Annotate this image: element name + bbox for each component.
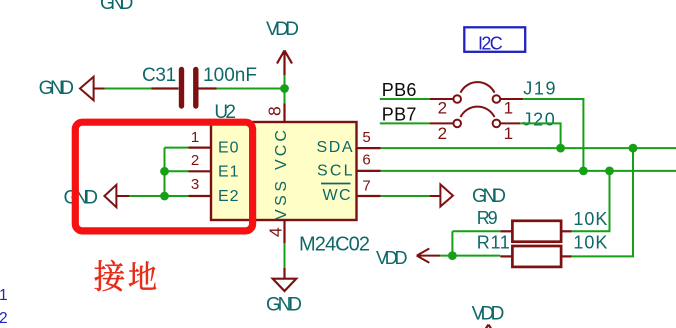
svg-text:2: 2 — [438, 124, 447, 143]
power symbol GND arrow (left of E2 row) — [104, 185, 129, 207]
wire J19 to SCL — [523, 99, 583, 171]
power symbol GND arrow (right, pin7) — [430, 184, 453, 206]
svg-text:C31: C31 — [142, 65, 176, 86]
junction at E1 — [160, 167, 169, 176]
pin 7 stub — [357, 195, 381, 197]
svg-text:1: 1 — [504, 124, 513, 143]
wire SDA line — [381, 147, 676, 149]
junction at E2 — [160, 192, 169, 201]
label box I2C — [464, 27, 525, 53]
svg-text:J20: J20 — [523, 109, 555, 129]
wire VDD to R11 left — [440, 255, 500, 257]
svg-text:PB6: PB6 — [382, 80, 417, 100]
svg-text:3: 3 — [191, 176, 199, 193]
svg-text:WC: WC — [323, 187, 351, 204]
pin 1 stub — [189, 147, 212, 149]
svg-text:VSS: VSS — [273, 181, 290, 220]
svg-text:E0: E0 — [218, 139, 239, 156]
wire GND arrow to C31 — [105, 88, 152, 90]
svg-text:VCC: VCC — [273, 130, 290, 170]
resistor R11 — [500, 246, 571, 267]
wire to pin1 — [165, 147, 189, 149]
svg-text:J19: J19 — [523, 79, 555, 99]
svg-text:GND: GND — [472, 186, 506, 207]
power symbol VDD arrow (left of R11) — [417, 249, 441, 263]
junction at VDD/C31 — [280, 84, 289, 93]
svg-text:SDA: SDA — [317, 139, 353, 156]
svg-text:PB7: PB7 — [382, 105, 417, 125]
wire pin4 to GND — [284, 243, 286, 268]
svg-text:2: 2 — [191, 152, 199, 169]
wire SCL line — [381, 170, 676, 172]
wire to pin2 — [165, 170, 189, 172]
svg-text:GND: GND — [100, 0, 133, 14]
power symbol VDD tip (bottom, clipped) — [485, 325, 493, 328]
wire SCL to R9 right — [572, 171, 610, 231]
svg-text:GND: GND — [64, 188, 99, 209]
capacitor C31 — [152, 70, 217, 107]
svg-text:E2: E2 — [218, 188, 239, 205]
pin 6 stub — [357, 170, 381, 172]
power symbol GND arrow (left of C31) — [80, 77, 105, 101]
pin 2 stub — [189, 170, 212, 172]
pin 3 stub — [189, 195, 212, 197]
wire vertical R9/R11 left tie — [451, 231, 453, 255]
power symbol GND (below pin4) — [273, 268, 297, 291]
annotation text 接地 (red) — [95, 260, 157, 291]
svg-text:7: 7 — [362, 178, 370, 195]
resistor R9 — [500, 221, 571, 242]
svg-text:10K: 10K — [573, 209, 607, 229]
svg-text:VDD: VDD — [266, 19, 299, 40]
svg-text:2: 2 — [438, 99, 447, 118]
svg-text:R11: R11 — [477, 233, 510, 253]
annotation red rounded rectangle — [75, 122, 252, 231]
svg-text:I2C: I2C — [478, 33, 503, 53]
wire PB6 to J19 — [380, 98, 430, 100]
svg-text:M24C02: M24C02 — [299, 234, 370, 256]
wire SDA to R11 right — [572, 148, 633, 256]
junction J20/SDA — [556, 144, 565, 153]
svg-text:4: 4 — [266, 227, 286, 237]
wire C31 to VDD junction — [217, 88, 285, 90]
jumper J19 — [430, 82, 524, 103]
wire VDD stem to junction to pin8 — [284, 75, 286, 104]
junction R9/SCL — [605, 167, 614, 176]
pin 4 stub — [283, 220, 285, 243]
svg-text:2: 2 — [0, 310, 8, 327]
svg-text:1: 1 — [0, 287, 8, 304]
svg-text:GND: GND — [39, 78, 74, 99]
svg-text:10K: 10K — [573, 233, 607, 253]
pin 8 stub — [283, 104, 285, 123]
svg-text:6: 6 — [362, 151, 370, 168]
wire PB7 to J20 — [380, 122, 430, 124]
wire WC to GND arrow — [381, 195, 430, 197]
wire vertical tie E0-E1-E2 — [164, 148, 166, 196]
wire R9 left — [452, 230, 500, 232]
svg-text:GND: GND — [266, 295, 302, 316]
svg-text:100nF: 100nF — [203, 65, 257, 86]
wire GND to pin3 — [129, 195, 189, 197]
wire J20 to SDA — [520, 123, 560, 148]
junction VDD/R11 — [448, 251, 457, 260]
svg-text:SCL: SCL — [317, 162, 353, 179]
junction R11/SDA — [629, 144, 638, 153]
IC U2 body — [211, 122, 357, 220]
junction J19/SCL — [579, 167, 588, 176]
svg-text:5: 5 — [362, 129, 370, 146]
jumper J20 — [430, 107, 521, 128]
svg-text:VDD: VDD — [472, 304, 505, 325]
power symbol VDD arrow (top) — [277, 50, 292, 75]
svg-text:VDD: VDD — [376, 248, 408, 268]
svg-text:E1: E1 — [218, 164, 239, 181]
pin 5 stub — [357, 147, 381, 149]
svg-text:1: 1 — [504, 99, 513, 118]
svg-text:1: 1 — [191, 129, 199, 146]
svg-text:8: 8 — [265, 106, 285, 116]
svg-text:R9: R9 — [477, 208, 498, 228]
